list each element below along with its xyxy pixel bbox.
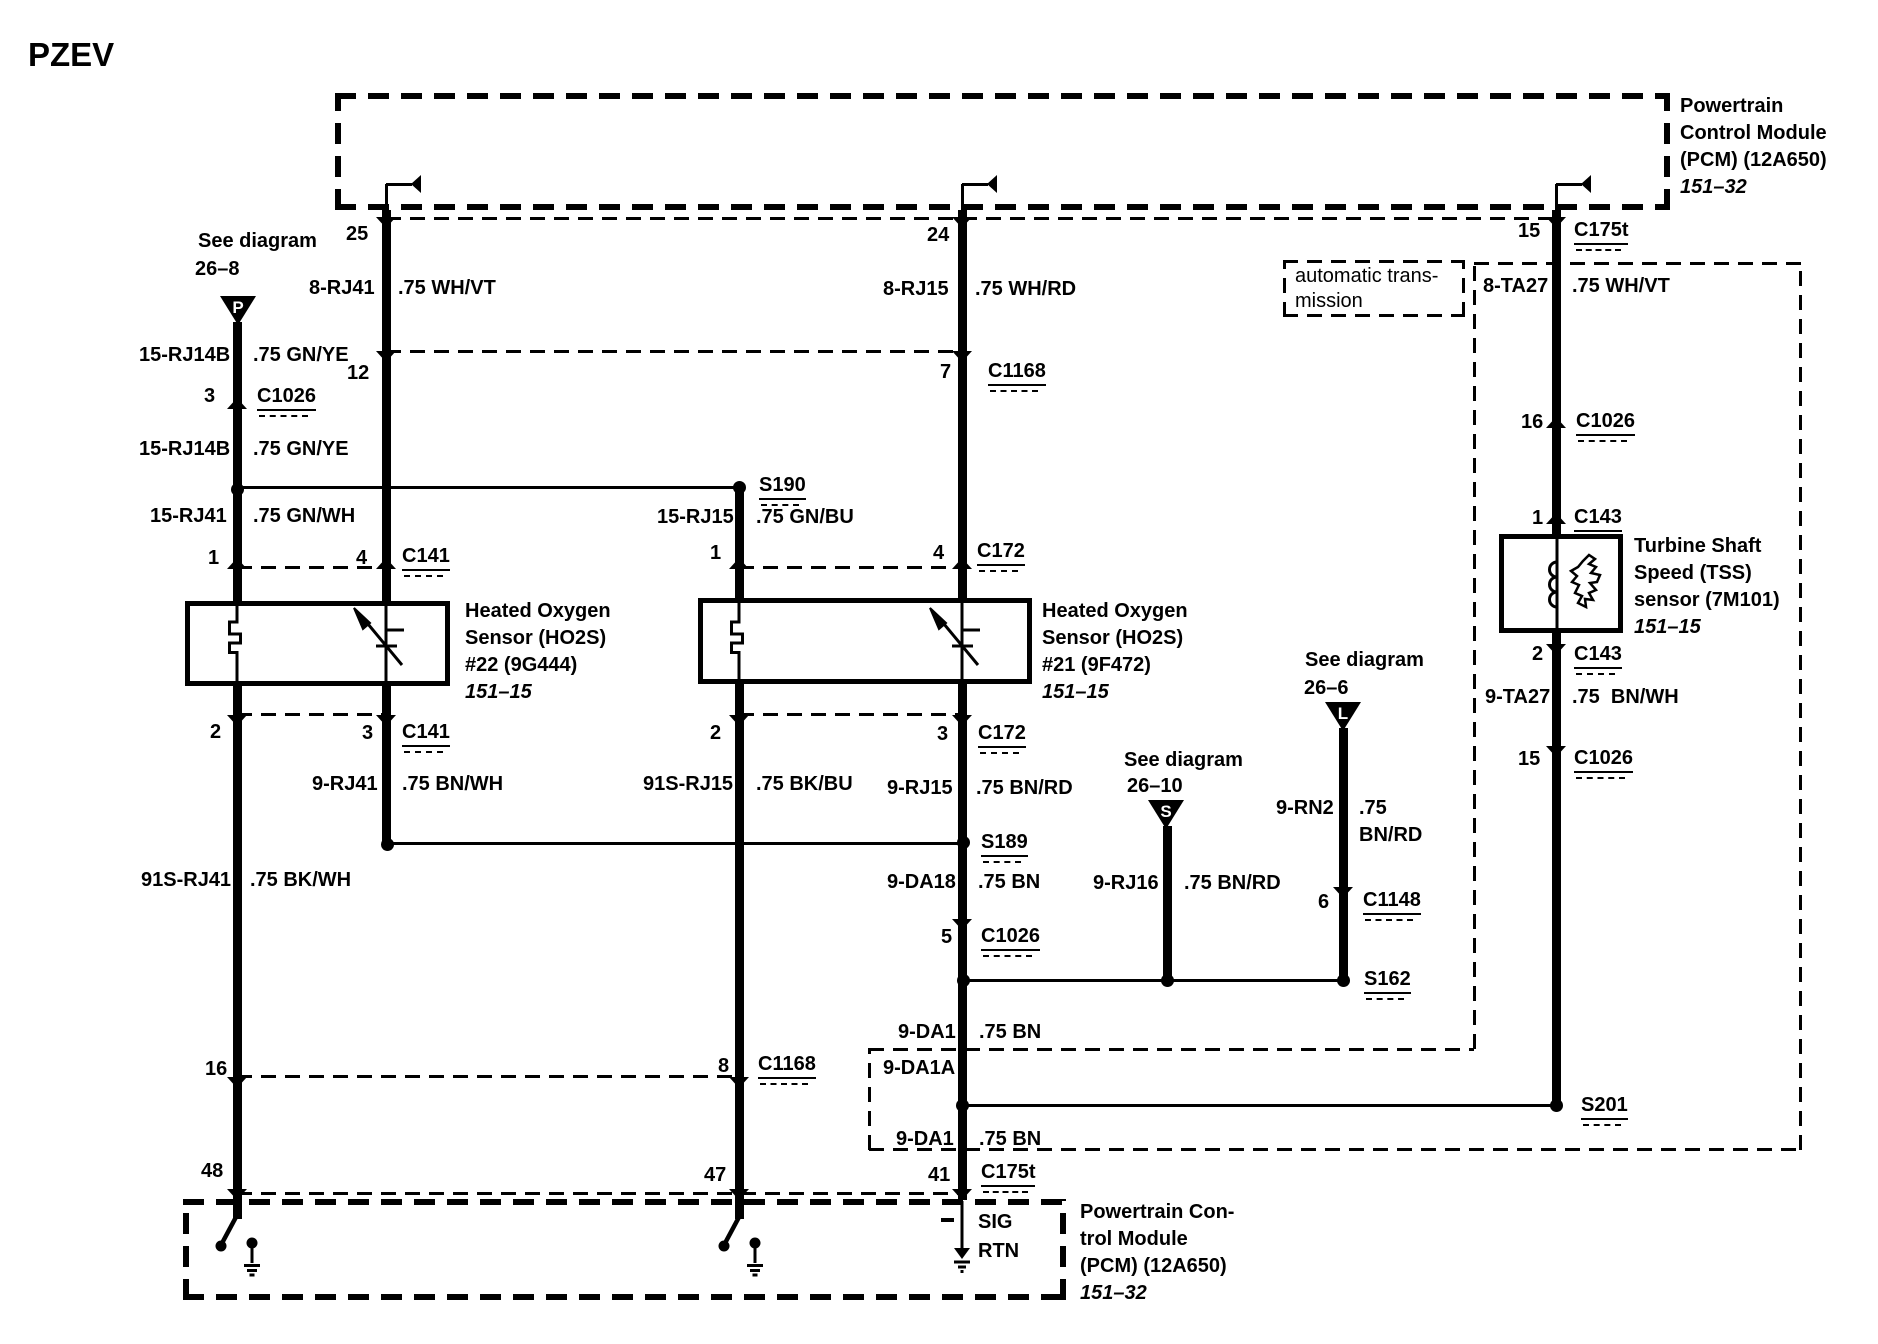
svg-text:P: P [232,298,243,317]
svg-text:L: L [1338,704,1348,723]
svg-text:S: S [1160,802,1171,821]
